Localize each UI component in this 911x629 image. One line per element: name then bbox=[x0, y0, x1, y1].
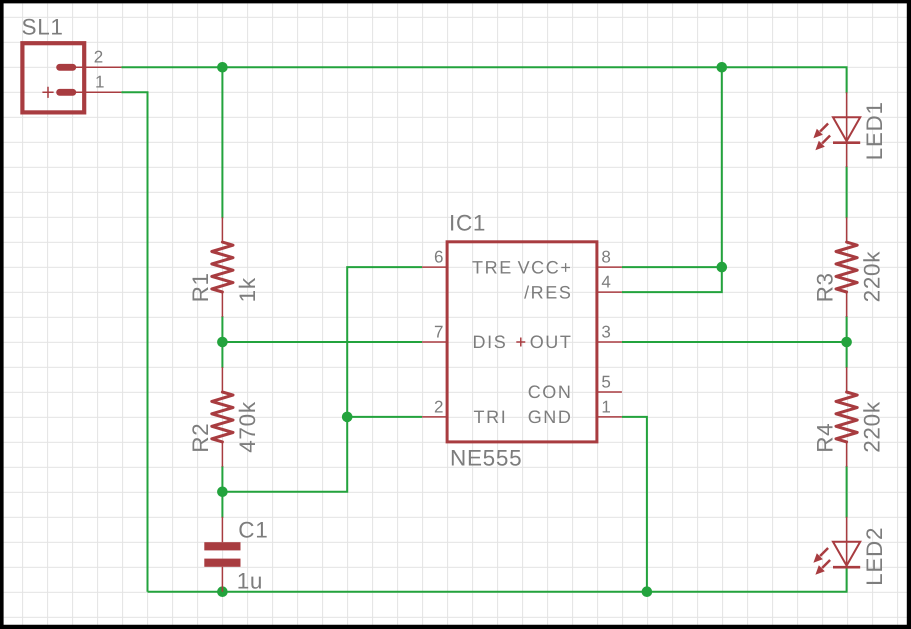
svg-text:TRI: TRI bbox=[474, 407, 508, 427]
pin 6 stub bbox=[422, 266, 447, 268]
wire bottom rail GND bbox=[148, 567, 847, 592]
svg-text:CON: CON bbox=[528, 382, 573, 402]
svg-text:3: 3 bbox=[601, 322, 610, 341]
wire pin1 GND down bbox=[622, 417, 647, 592]
wire LED1 to R3 bbox=[846, 166, 848, 218]
svg-text:1: 1 bbox=[601, 397, 610, 416]
LED2 bbox=[813, 517, 860, 575]
svg-text:DIS: DIS bbox=[473, 332, 508, 352]
junction TRI at mid vertical bbox=[342, 412, 353, 423]
pin 3 stub bbox=[597, 341, 622, 343]
pin 2 stub bbox=[422, 416, 447, 418]
SL1 pin 1 pad bbox=[56, 89, 76, 96]
wire top rail VCC bbox=[121, 67, 846, 93]
wire R1 top bbox=[221, 67, 223, 218]
pin 1 stub bbox=[597, 416, 622, 418]
pin 4 stub bbox=[597, 291, 622, 293]
resistor R3 bbox=[836, 217, 857, 317]
wire TRI pin2 bbox=[347, 416, 422, 418]
svg-text:220k: 220k bbox=[859, 251, 884, 303]
junction top rail at R1 bbox=[217, 62, 228, 73]
svg-text:NE555: NE555 bbox=[450, 445, 522, 470]
junction C1 bottom rail bbox=[217, 586, 228, 597]
svg-text:8: 8 bbox=[601, 248, 610, 267]
svg-text:LED2: LED2 bbox=[862, 527, 887, 586]
wire R1 bottom to R2 top bbox=[221, 316, 223, 368]
wire R3 to OUT junction to R4 bbox=[846, 316, 848, 368]
wire OUT pin3 bbox=[622, 341, 847, 343]
connector SL1 box bbox=[22, 43, 84, 112]
svg-text:R2: R2 bbox=[188, 423, 213, 453]
SL1 plus mark bbox=[42, 87, 53, 98]
svg-text:1: 1 bbox=[95, 72, 104, 91]
wire DIS pin7 bbox=[222, 341, 422, 343]
junction DIS at R1/R2 bbox=[217, 337, 228, 348]
svg-text:VCC+: VCC+ bbox=[518, 257, 573, 277]
junction top rail at VCC vertical bbox=[717, 62, 728, 73]
svg-text:6: 6 bbox=[434, 248, 443, 267]
SL1 pin 2 pad bbox=[56, 64, 76, 71]
svg-text:470k: 470k bbox=[235, 401, 260, 453]
resistor R4 bbox=[836, 367, 857, 467]
junction pin1 bottom rail bbox=[642, 586, 653, 597]
resistor R1 bbox=[212, 217, 233, 317]
svg-text:7: 7 bbox=[434, 322, 443, 341]
svg-text:1u: 1u bbox=[237, 569, 263, 594]
svg-text:TRE: TRE bbox=[472, 257, 513, 277]
IC1 NE555 box bbox=[447, 242, 597, 442]
OUT plus mark bbox=[516, 338, 525, 347]
svg-text:2: 2 bbox=[94, 47, 103, 66]
svg-text:OUT: OUT bbox=[530, 332, 573, 352]
pin 8 stub bbox=[597, 266, 622, 268]
svg-text:5: 5 bbox=[601, 372, 610, 391]
svg-text:4: 4 bbox=[601, 273, 610, 292]
junction pin8 at VCC vertical bbox=[717, 262, 728, 273]
svg-text:220k: 220k bbox=[859, 401, 884, 453]
svg-text:C1: C1 bbox=[238, 517, 268, 542]
junction R2 bottom bbox=[217, 487, 228, 498]
svg-text:/RES: /RES bbox=[524, 282, 572, 302]
svg-text:GND: GND bbox=[528, 407, 573, 427]
svg-text:R4: R4 bbox=[812, 423, 837, 453]
junction OUT at R3/R4 bbox=[841, 337, 852, 348]
SL1 pin 2 lead bbox=[74, 66, 121, 68]
capacitor C1 bbox=[204, 517, 240, 592]
svg-text:R1: R1 bbox=[188, 272, 213, 302]
svg-text:R3: R3 bbox=[812, 272, 837, 302]
wire SL1 pin1 to left rail bbox=[121, 92, 147, 591]
wire R4 to LED2 bbox=[846, 466, 848, 518]
svg-text:LED1: LED1 bbox=[862, 101, 887, 160]
wire mid vertical TRE/TRI net bbox=[222, 267, 422, 492]
pin 5 stub bbox=[597, 391, 622, 393]
wire pin8 VCC bbox=[622, 266, 722, 268]
pin 7 stub bbox=[422, 341, 447, 343]
svg-text:IC1: IC1 bbox=[449, 210, 486, 235]
svg-text:2: 2 bbox=[434, 397, 443, 416]
resistor R2 bbox=[212, 367, 233, 467]
SL1 pin 1 lead bbox=[74, 91, 121, 93]
wire R2 bottom to C1 bbox=[221, 466, 223, 518]
svg-text:1k: 1k bbox=[235, 277, 260, 302]
LED1 bbox=[813, 92, 860, 167]
wire pin4 RES to VCC vertical bbox=[622, 66, 722, 292]
svg-text:SL1: SL1 bbox=[22, 14, 64, 39]
